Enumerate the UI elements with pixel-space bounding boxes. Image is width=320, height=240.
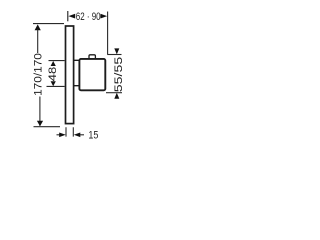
svg-text:170/170: 170/170 — [33, 53, 45, 96]
svg-text:62 · 90: 62 · 90 — [76, 11, 101, 23]
svg-text:48: 48 — [47, 67, 59, 81]
svg-text:15: 15 — [88, 130, 98, 142]
svg-text:55/55: 55/55 — [113, 57, 125, 92]
